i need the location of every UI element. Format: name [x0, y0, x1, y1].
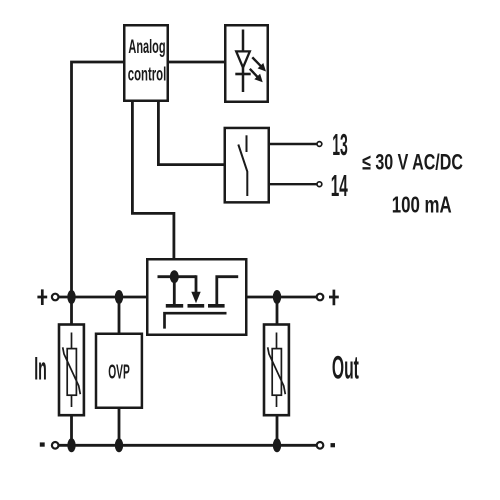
LED D1: cathode lead: [242, 68, 245, 92]
svg-text:≤ 30 V AC/DC: ≤ 30 V AC/DC: [362, 150, 463, 175]
terminal: + input circle: [52, 294, 59, 301]
label: + (output): [329, 290, 339, 306]
mosfet Q1: gate line with hook: [165, 313, 227, 328]
wire: In varistor bottom lead: [70, 415, 73, 445]
label: - (output): [331, 443, 336, 447]
terminal: contact 13 circle: [317, 142, 322, 147]
junction: - bus at Out: [273, 438, 281, 452]
svg-text:13: 13: [332, 127, 348, 162]
svg-text:Out: Out: [332, 350, 359, 386]
switch S1: fixed contact: [246, 135, 248, 152]
mosfet Q1: source riser and top lead: [217, 277, 238, 305]
terminal: - input circle: [52, 442, 59, 449]
svg-text:100 mA: 100 mA: [392, 192, 452, 218]
LED D1: light arrow 1: [252, 57, 266, 71]
block: electronic switch (MOSFET): [147, 259, 246, 335]
varistor RV1: diagonal stroke: [63, 347, 81, 394]
block: remote indication contact (relay): [225, 128, 269, 202]
terminal: - output circle: [317, 442, 324, 449]
mosfet Q1: left drop to channel: [173, 277, 176, 304]
varistor RV1: top lead: [71, 333, 73, 350]
mosfet Q1: channel bar 1: [166, 304, 183, 308]
varistor RV2: diagonal stroke: [268, 347, 286, 394]
wire: relay output 13: [270, 143, 317, 145]
wire: + bus left segment: [59, 296, 149, 299]
wire: Analog control right to LED box: [169, 61, 226, 64]
wire: Out varistor bottom lead: [276, 415, 279, 445]
block: LED indicator box: [225, 25, 268, 102]
LED D1: anode lead: [242, 30, 245, 52]
LED D1: cathode bar: [235, 73, 250, 76]
junction: + bus at In: [67, 290, 75, 304]
varistor RV2: top lead: [276, 333, 278, 350]
wire: In varistor top lead: [70, 297, 73, 325]
switch S1: moving contact: [238, 145, 247, 197]
wire: riser from + bus to Analog control left: [72, 62, 124, 297]
block U1: Analog control: [124, 25, 168, 101]
junction: + bus at Out: [273, 290, 281, 304]
wire: OVP top lead: [118, 297, 121, 335]
svg-text:14: 14: [331, 168, 348, 203]
junction: - bus at OVP: [115, 438, 123, 452]
varistor RV1: bottom lead: [71, 395, 73, 407]
LED D1: light arrow 2: [250, 69, 263, 83]
terminal: + output circle: [317, 294, 324, 301]
varistor RV1: body rect: [67, 349, 76, 396]
mosfet Q1: drain line: [158, 275, 197, 278]
varistor RV2 (Out side): [264, 325, 289, 416]
wire: + bus right segment: [247, 296, 317, 299]
wire: Out varistor top lead: [276, 297, 279, 325]
mosfet Q1: junction dot: [170, 270, 179, 283]
terminal: contact 14 circle: [317, 182, 322, 187]
varistor RV2: body rect: [272, 349, 281, 396]
junction: + bus at OVP: [115, 290, 123, 304]
mosfet Q1: body-diode arrow shaft: [195, 275, 198, 293]
wire: Analog control bottom-left down to MOSFET box top: [132, 101, 174, 260]
svg-text:OVP: OVP: [108, 361, 130, 384]
svg-text:In: In: [34, 350, 47, 386]
varistor RV1 (In side): [59, 325, 84, 416]
label: + (input): [37, 289, 47, 305]
wire: - bus: [59, 444, 317, 447]
mosfet Q1: body-diode arrow head: [191, 292, 200, 303]
junction: - bus at In: [67, 438, 75, 452]
svg-text:Analog: Analog: [128, 36, 165, 58]
svg-text:control: control: [128, 64, 167, 86]
block: OVP: [96, 334, 142, 408]
wire: Analog control bottom-right down to relay box left: [158, 101, 224, 165]
LED D1: triangle: [236, 51, 250, 67]
mosfet Q1: channel bar 3: [208, 304, 225, 308]
varistor RV2: bottom lead: [276, 395, 278, 407]
label: - (input): [40, 442, 45, 446]
mosfet Q1: channel bar 2: [188, 304, 205, 308]
wire: OVP bottom lead: [118, 408, 121, 445]
wire: relay output 14: [270, 183, 317, 185]
